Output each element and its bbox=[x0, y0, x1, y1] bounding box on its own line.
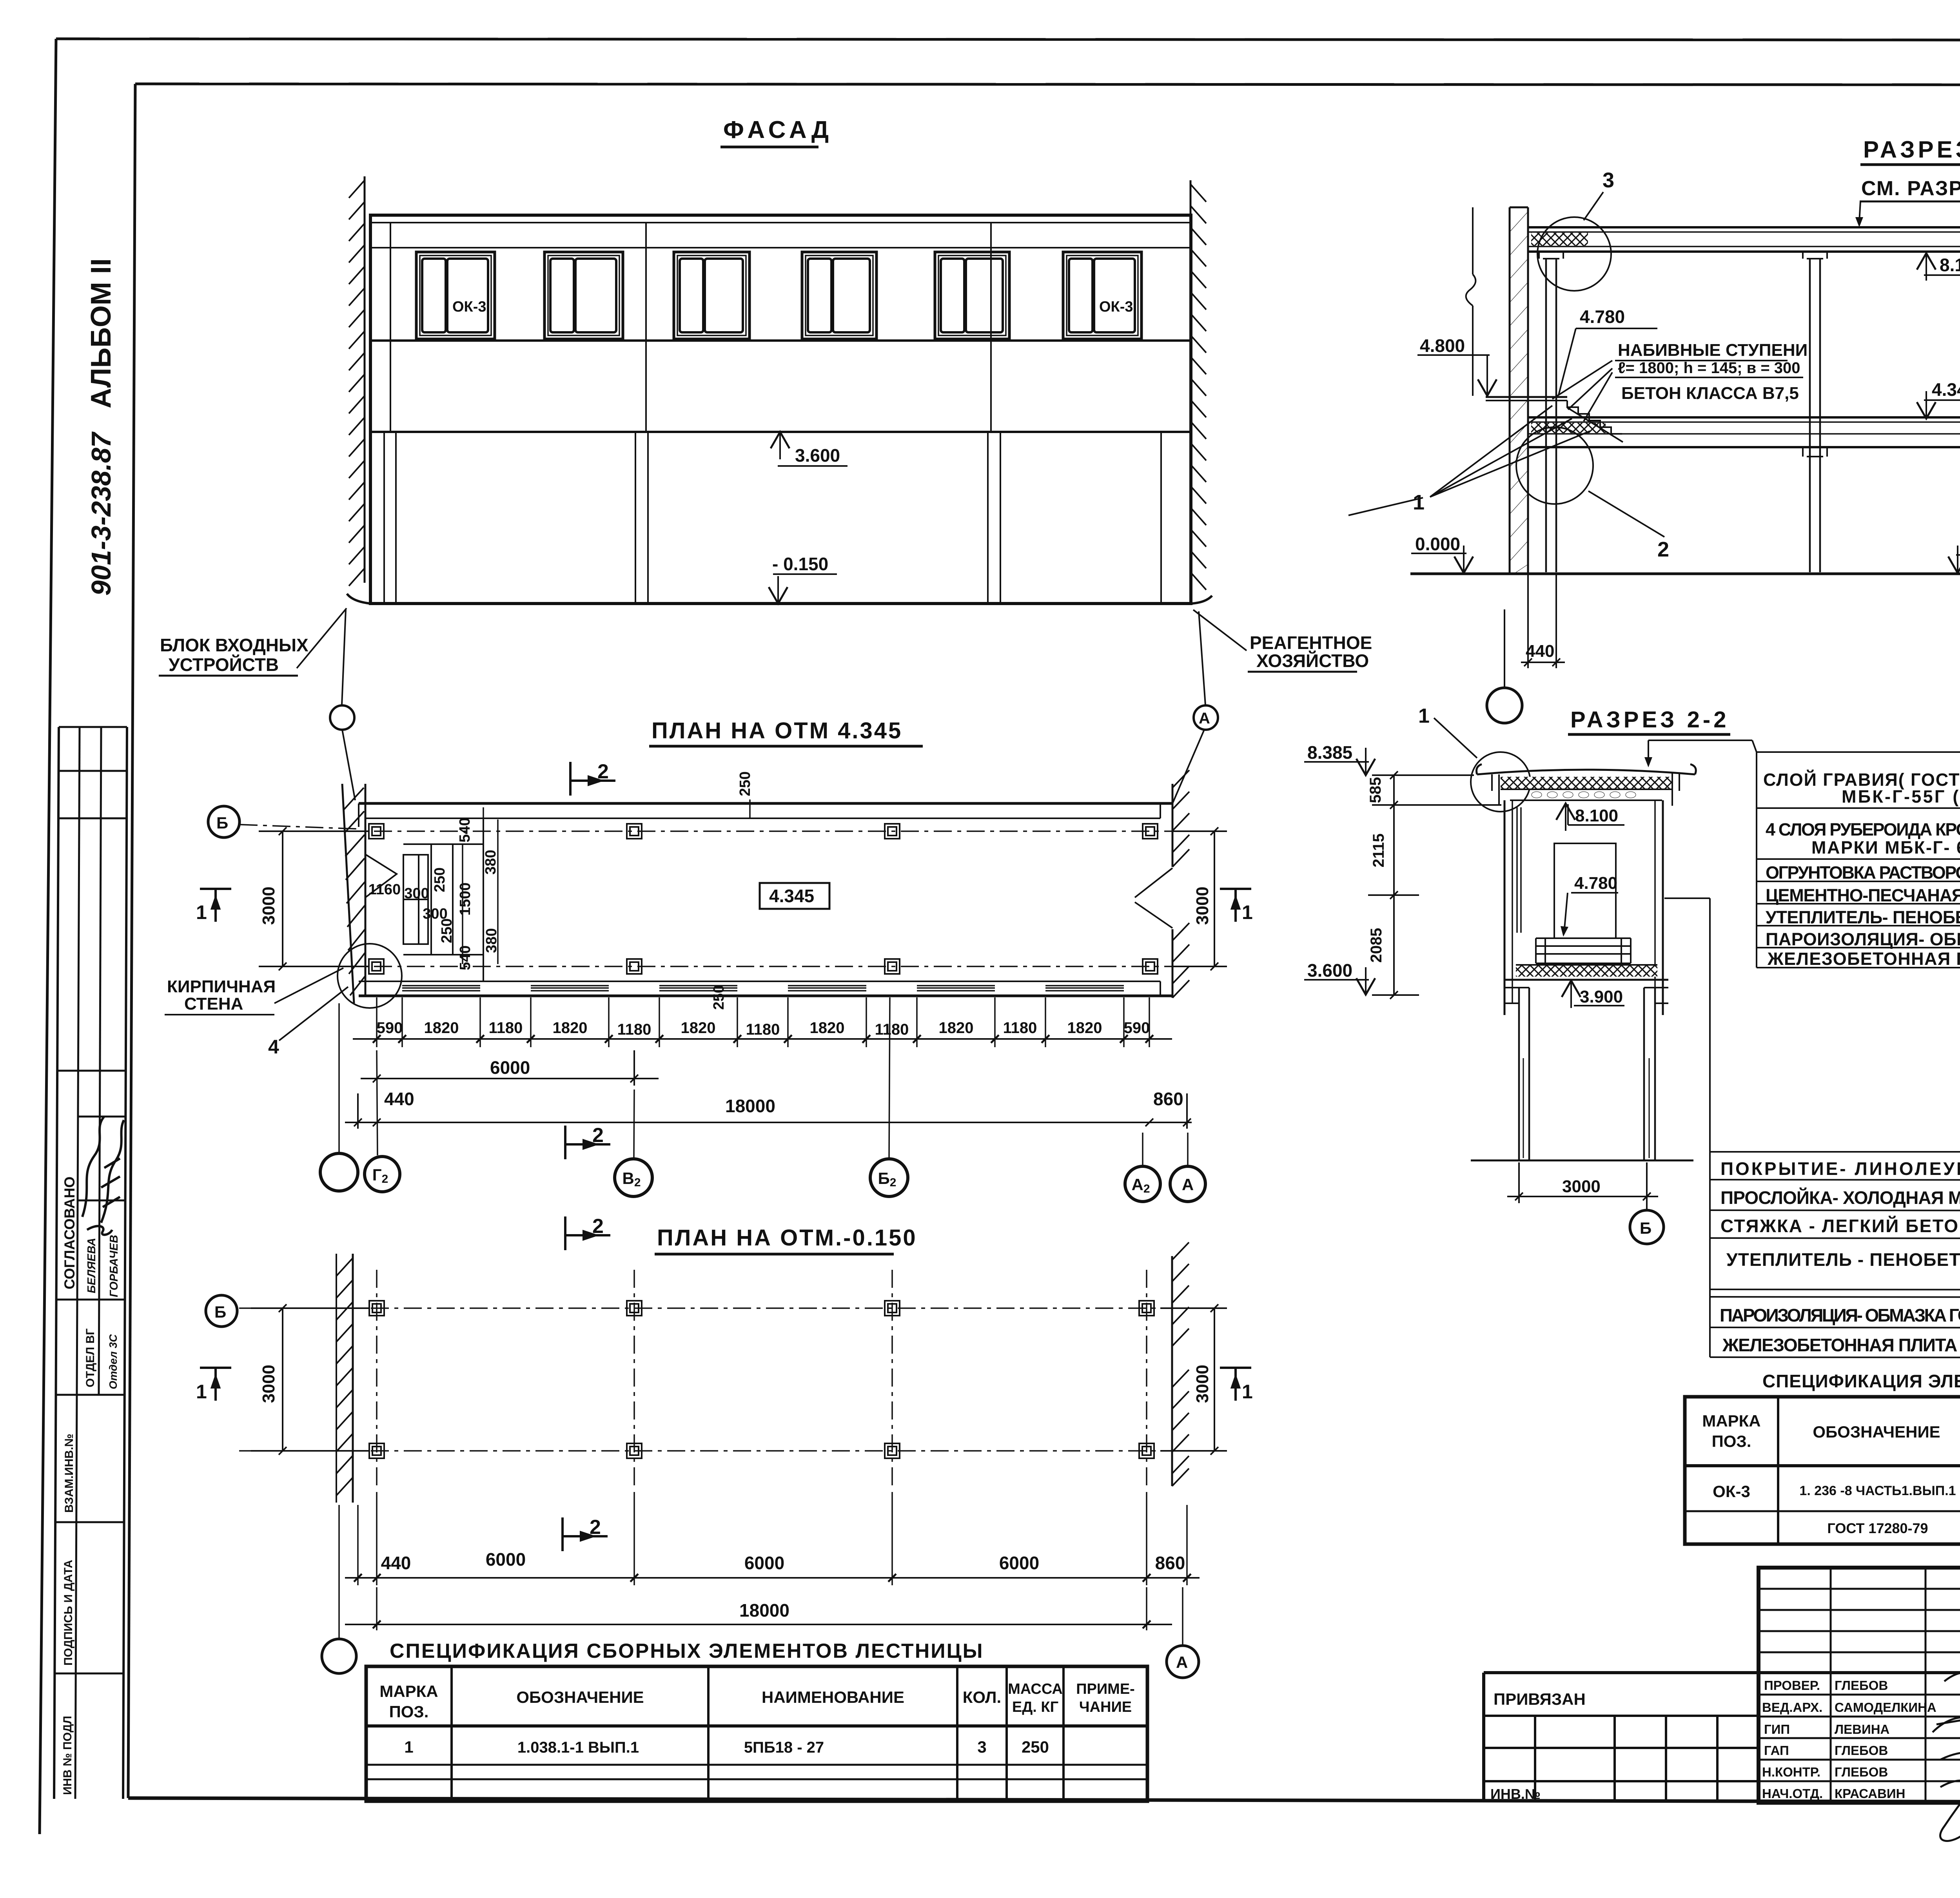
svg-text:5ПБ18 - 27: 5ПБ18 - 27 bbox=[744, 1739, 824, 1756]
svg-text:1820: 1820 bbox=[1067, 1019, 1102, 1037]
svg-text:ГИП: ГИП bbox=[1764, 1722, 1790, 1737]
svg-text:ПЛАН НА ОТМ 4.345: ПЛАН НА ОТМ 4.345 bbox=[652, 718, 902, 743]
svg-text:3000: 3000 bbox=[1193, 1365, 1212, 1403]
svg-text:1180: 1180 bbox=[617, 1021, 652, 1038]
svg-text:1180: 1180 bbox=[489, 1019, 523, 1037]
svg-text:2: 2 bbox=[590, 1516, 601, 1539]
svg-text:ОБОЗНАЧЕНИЕ: ОБОЗНАЧЕНИЕ bbox=[1813, 1423, 1940, 1441]
svg-text:3.900: 3.900 bbox=[1580, 987, 1623, 1006]
svg-text:1: 1 bbox=[196, 901, 207, 923]
svg-text:ПАРОИЗОЛЯЦИЯ- ОБМАЗКА ГОРЯЧ: ПАРОИЗОЛЯЦИЯ- ОБМАЗКА ГОРЯЧИМ БИТУМОМ ЗА… bbox=[1720, 1305, 1960, 1325]
svg-text:4.800: 4.800 bbox=[1420, 335, 1465, 356]
svg-text:ПОДПИСЬ И ДАТА: ПОДПИСЬ И ДАТА bbox=[62, 1560, 75, 1666]
svg-text:БЕТОН КЛАССА В7,5: БЕТОН КЛАССА В7,5 bbox=[1621, 384, 1799, 403]
svg-text:МАРКА: МАРКА bbox=[1702, 1412, 1760, 1430]
svg-text:ЛЕВИНА: ЛЕВИНА bbox=[1835, 1722, 1889, 1737]
svg-text:ОК-3: ОК-3 bbox=[1713, 1482, 1750, 1501]
svg-text:18000: 18000 bbox=[739, 1600, 789, 1621]
svg-text:250: 250 bbox=[737, 771, 753, 796]
svg-text:1820: 1820 bbox=[553, 1019, 588, 1037]
svg-text:АЛЬБОМ II: АЛЬБОМ II bbox=[85, 258, 117, 408]
svg-text:8.100: 8.100 bbox=[1940, 255, 1960, 275]
svg-text:Б: Б bbox=[1640, 1219, 1651, 1237]
svg-text:0.000: 0.000 bbox=[1415, 534, 1460, 554]
svg-text:УСТРОЙСТВ: УСТРОЙСТВ bbox=[169, 654, 279, 675]
svg-text:2: 2 bbox=[592, 1215, 604, 1238]
svg-text:1180: 1180 bbox=[746, 1021, 780, 1038]
svg-text:8.385: 8.385 bbox=[1307, 742, 1352, 763]
svg-text:ПРИМЕ-: ПРИМЕ- bbox=[1076, 1681, 1135, 1697]
svg-text:БЛОК ВХОДНЫХ: БЛОК ВХОДНЫХ bbox=[160, 635, 309, 655]
svg-text:3000: 3000 bbox=[259, 1365, 278, 1403]
svg-text:2115: 2115 bbox=[1370, 834, 1387, 868]
svg-text:МАРКА: МАРКА bbox=[379, 1682, 438, 1700]
svg-text:Отдел 3С: Отдел 3С bbox=[107, 1334, 119, 1389]
svg-text:ГЛЕБОВ: ГЛЕБОВ bbox=[1835, 1678, 1888, 1693]
svg-text:1: 1 bbox=[1418, 705, 1430, 727]
svg-text:ГАП: ГАП bbox=[1764, 1743, 1789, 1758]
svg-text:1: 1 bbox=[196, 1381, 207, 1403]
svg-text:РЕАГЕНТНОЕ: РЕАГЕНТНОЕ bbox=[1250, 633, 1372, 653]
svg-text:НАИМЕНОВАНИЕ: НАИМЕНОВАНИЕ bbox=[762, 1688, 904, 1706]
svg-text:4: 4 bbox=[268, 1036, 279, 1058]
svg-text:СПЕЦИФИКАЦИЯ ЭЛЕМЕНТОВ ЗАП: СПЕЦИФИКАЦИЯ ЭЛЕМЕНТОВ ЗАПОЛНЕНИЯ ПРОЕМО… bbox=[1762, 1371, 1960, 1391]
svg-text:3: 3 bbox=[1602, 169, 1614, 192]
svg-text:ХОЗЯЙСТВО: ХОЗЯЙСТВО bbox=[1256, 651, 1369, 671]
svg-text:3000: 3000 bbox=[1193, 886, 1212, 925]
svg-text:НАБИВНЫЕ СТУПЕНИ: НАБИВНЫЕ СТУПЕНИ bbox=[1618, 341, 1808, 360]
svg-text:ПОЗ.: ПОЗ. bbox=[389, 1702, 429, 1721]
svg-text:УТЕПЛИТЕЛЬ- ПЕНОБЕТОН γ = 30: УТЕПЛИТЕЛЬ- ПЕНОБЕТОН γ = 300 КГ/М³- 140… bbox=[1766, 907, 1960, 927]
svg-text:ФАСАД: ФАСАД bbox=[723, 116, 833, 143]
svg-text:4.345: 4.345 bbox=[769, 886, 814, 906]
svg-text:300: 300 bbox=[423, 906, 447, 922]
svg-text:ПАРОИЗОЛЯЦИЯ- ОБМАЗКА ГОРЯЧИ: ПАРОИЗОЛЯЦИЯ- ОБМАЗКА ГОРЯЧИМ БИТУМОМ ЗА… bbox=[1766, 929, 1960, 949]
svg-text:РАЗРЕЗ 1-1: РАЗРЕЗ 1-1 bbox=[1863, 136, 1960, 163]
svg-text:3000: 3000 bbox=[1562, 1177, 1601, 1196]
svg-text:НАЧ.ОТД.: НАЧ.ОТД. bbox=[1762, 1786, 1823, 1801]
svg-text:ПЛАН НА ОТМ.-0.150: ПЛАН НА ОТМ.-0.150 bbox=[657, 1225, 917, 1251]
svg-text:ПОЗ.: ПОЗ. bbox=[1712, 1432, 1751, 1450]
svg-text:2: 2 bbox=[592, 1124, 604, 1147]
svg-text:1.038.1-1 ВЫП.1: 1.038.1-1 ВЫП.1 bbox=[517, 1739, 639, 1756]
svg-text:6000: 6000 bbox=[486, 1549, 526, 1570]
svg-text:1820: 1820 bbox=[424, 1019, 459, 1037]
svg-text:РАЗРЕЗ 2-2: РАЗРЕЗ 2-2 bbox=[1570, 707, 1729, 732]
svg-text:ЖЕЛЕЗОБЕТОННАЯ ПЛИТА ПОКР: ЖЕЛЕЗОБЕТОННАЯ ПЛИТА ПОКРЫТИЯ. bbox=[1767, 949, 1960, 969]
svg-text:ВЗАМ.ИНВ.№: ВЗАМ.ИНВ.№ bbox=[63, 1434, 76, 1513]
svg-text:А: А bbox=[1199, 710, 1210, 727]
svg-text:1: 1 bbox=[1242, 1381, 1253, 1403]
svg-text:540: 540 bbox=[457, 818, 473, 842]
svg-text:590: 590 bbox=[377, 1019, 403, 1037]
svg-text:БЕЛЯЕВА: БЕЛЯЕВА bbox=[85, 1238, 98, 1293]
svg-text:6000: 6000 bbox=[490, 1057, 530, 1078]
svg-text:- 0.150: - 0.150 bbox=[772, 554, 828, 574]
svg-text:ПРИВЯЗАН: ПРИВЯЗАН bbox=[1494, 1690, 1586, 1708]
svg-text:6000: 6000 bbox=[999, 1553, 1039, 1573]
svg-text:1: 1 bbox=[1242, 901, 1253, 923]
svg-text:250: 250 bbox=[711, 985, 727, 1010]
svg-text:А: А bbox=[1182, 1175, 1194, 1194]
svg-text:ОК-3: ОК-3 bbox=[452, 299, 486, 315]
svg-text:МАРКИ МБК-Г- 65А (МБК-Г- 65А: МАРКИ МБК-Г- 65А (МБК-Г- 65А) bbox=[1811, 838, 1960, 857]
svg-text:ГЛЕБОВ: ГЛЕБОВ bbox=[1835, 1765, 1888, 1779]
svg-text:540: 540 bbox=[457, 945, 474, 970]
svg-text:1820: 1820 bbox=[681, 1019, 716, 1037]
svg-text:860: 860 bbox=[1155, 1553, 1185, 1573]
svg-text:4 СЛОЯ РУБЕРОИДА КРОВЕЛЬНОГО: 4 СЛОЯ РУБЕРОИДА КРОВЕЛЬНОГО РКП 350(ГОС… bbox=[1766, 819, 1960, 839]
svg-text:860: 860 bbox=[1153, 1089, 1183, 1109]
svg-text:1180: 1180 bbox=[1003, 1019, 1037, 1037]
svg-text:2: 2 bbox=[1657, 538, 1669, 561]
svg-text:1820: 1820 bbox=[810, 1019, 845, 1037]
svg-text:СТЯЖКА - ЛЕГКИЙ БЕТОН МАР: СТЯЖКА - ЛЕГКИЙ БЕТОН МАРКИ 50- 60ММ bbox=[1720, 1216, 1960, 1236]
svg-text:1500: 1500 bbox=[457, 883, 474, 916]
svg-text:3.600: 3.600 bbox=[795, 445, 840, 466]
svg-text:4.780: 4.780 bbox=[1574, 874, 1617, 893]
svg-text:ОБОЗНАЧЕНИЕ: ОБОЗНАЧЕНИЕ bbox=[516, 1688, 644, 1706]
svg-text:ЦЕМЕНТНО-ПЕСЧАНАЯ СТЯЖКА М50: ЦЕМЕНТНО-ПЕСЧАНАЯ СТЯЖКА М50-15ММ bbox=[1766, 885, 1960, 905]
svg-text:1180: 1180 bbox=[875, 1021, 909, 1038]
svg-text:СПЕЦИФИКАЦИЯ СБОРНЫХ ЭЛЕМЕН: СПЕЦИФИКАЦИЯ СБОРНЫХ ЭЛЕМЕНТОВ ЛЕСТНИЦЫ bbox=[390, 1640, 984, 1662]
svg-text:КРАСАВИН: КРАСАВИН bbox=[1835, 1786, 1906, 1801]
svg-text:КИРПИЧНАЯ: КИРПИЧНАЯ bbox=[167, 977, 276, 996]
svg-text:380: 380 bbox=[483, 850, 499, 874]
svg-text:Б: Б bbox=[214, 1303, 226, 1321]
svg-text:1160: 1160 bbox=[368, 881, 401, 898]
svg-text:МБК-Г-55Г (МБК-Г-65Г) ГОСТ 2: МБК-Г-55Г (МБК-Г-65Г) ГОСТ 2889-80 - 10 … bbox=[1842, 787, 1960, 807]
svg-text:2: 2 bbox=[597, 760, 609, 783]
svg-text:А: А bbox=[1176, 1653, 1188, 1671]
svg-text:440: 440 bbox=[381, 1553, 411, 1573]
svg-text:1: 1 bbox=[404, 1738, 413, 1756]
svg-text:2085: 2085 bbox=[1368, 928, 1385, 963]
svg-text:585: 585 bbox=[1367, 777, 1384, 803]
svg-text:440: 440 bbox=[1526, 642, 1554, 661]
svg-text:Б: Б bbox=[216, 814, 228, 832]
svg-text:ВЕД.АРХ.: ВЕД.АРХ. bbox=[1762, 1700, 1822, 1715]
svg-text:440: 440 bbox=[384, 1089, 414, 1109]
svg-text:8.100: 8.100 bbox=[1575, 806, 1618, 825]
svg-text:МАССА: МАССА bbox=[1008, 1681, 1063, 1697]
svg-text:590: 590 bbox=[1124, 1019, 1150, 1037]
svg-text:4.345: 4.345 bbox=[1932, 379, 1960, 400]
svg-text:3: 3 bbox=[977, 1738, 986, 1756]
svg-text:СТЕНА: СТЕНА bbox=[184, 994, 243, 1013]
svg-text:ЕД. КГ: ЕД. КГ bbox=[1012, 1699, 1058, 1715]
svg-text:СМ. РАЗРЕЗ 2-2: СМ. РАЗРЕЗ 2-2 bbox=[1861, 177, 1960, 200]
svg-text:УТЕПЛИТЕЛЬ - ПЕНОБЕТОН γ = 3: УТЕПЛИТЕЛЬ - ПЕНОБЕТОН γ = 300 КГ/М³ - 1… bbox=[1726, 1249, 1960, 1270]
svg-text:ГОРБАЧЕВ: ГОРБАЧЕВ bbox=[108, 1235, 120, 1297]
svg-text:6000: 6000 bbox=[744, 1553, 784, 1573]
svg-text:ИНВ № ПОДЛ: ИНВ № ПОДЛ bbox=[61, 1716, 74, 1795]
svg-text:1820: 1820 bbox=[939, 1019, 974, 1037]
svg-text:ОТДЕЛ ВГ: ОТДЕЛ ВГ bbox=[84, 1329, 97, 1387]
svg-text:901-3-238.87: 901-3-238.87 bbox=[86, 431, 116, 596]
svg-text:Н.КОНТР.: Н.КОНТР. bbox=[1762, 1765, 1820, 1779]
svg-text:ПРОВЕР.: ПРОВЕР. bbox=[1764, 1678, 1820, 1693]
svg-text:ℓ= 1800; h = 145; в = 300: ℓ= 1800; h = 145; в = 300 bbox=[1618, 359, 1800, 377]
svg-text:ПРОСЛОЙКА- ХОЛОДНАЯ МАСТИКА: ПРОСЛОЙКА- ХОЛОДНАЯ МАСТИКА НА ВОДОСТОЙК… bbox=[1720, 1187, 1960, 1208]
svg-text:4.780: 4.780 bbox=[1580, 306, 1625, 327]
svg-text:ПОКРЫТИЕ- ЛИНОЛЕУМ ( ГОСТ 7251: ПОКРЫТИЕ- ЛИНОЛЕУМ ( ГОСТ 7251-77) - 4ММ… bbox=[1720, 1158, 1960, 1179]
svg-text:300: 300 bbox=[404, 885, 429, 902]
svg-text:ЖЕЛЕЗОБЕТОННАЯ ПЛИТА ПЕРЕК: ЖЕЛЕЗОБЕТОННАЯ ПЛИТА ПЕРЕКРЫТИЯ. bbox=[1722, 1335, 1960, 1355]
svg-text:250: 250 bbox=[1022, 1738, 1049, 1756]
svg-text:САМОДЕЛКИНА: САМОДЕЛКИНА bbox=[1835, 1700, 1936, 1715]
svg-text:1: 1 bbox=[1413, 491, 1425, 514]
svg-text:ГОСТ 17280-79: ГОСТ 17280-79 bbox=[1827, 1520, 1928, 1536]
svg-text:ЧАНИЕ: ЧАНИЕ bbox=[1079, 1699, 1132, 1715]
svg-text:3.600: 3.600 bbox=[1307, 960, 1352, 981]
svg-text:КОЛ.: КОЛ. bbox=[963, 1688, 1001, 1706]
svg-text:СОГЛАСОВАНО: СОГЛАСОВАНО bbox=[62, 1177, 78, 1289]
svg-text:ГЛЕБОВ: ГЛЕБОВ bbox=[1835, 1743, 1888, 1758]
svg-text:ИНВ.№: ИНВ.№ bbox=[1490, 1786, 1541, 1802]
svg-text:ОГРУНТОВКА РАСТВОРОМ БИТУМА: ОГРУНТОВКА РАСТВОРОМ БИТУМА ПЯТОЙ МАРКИ … bbox=[1766, 863, 1960, 883]
svg-text:18000: 18000 bbox=[725, 1096, 775, 1116]
svg-text:250: 250 bbox=[432, 867, 448, 892]
svg-text:1. 236 -8 ЧАСТЬ1.ВЫП.1: 1. 236 -8 ЧАСТЬ1.ВЫП.1 bbox=[1799, 1483, 1956, 1498]
svg-text:ОК-3: ОК-3 bbox=[1099, 299, 1133, 315]
svg-text:3000: 3000 bbox=[259, 886, 278, 925]
